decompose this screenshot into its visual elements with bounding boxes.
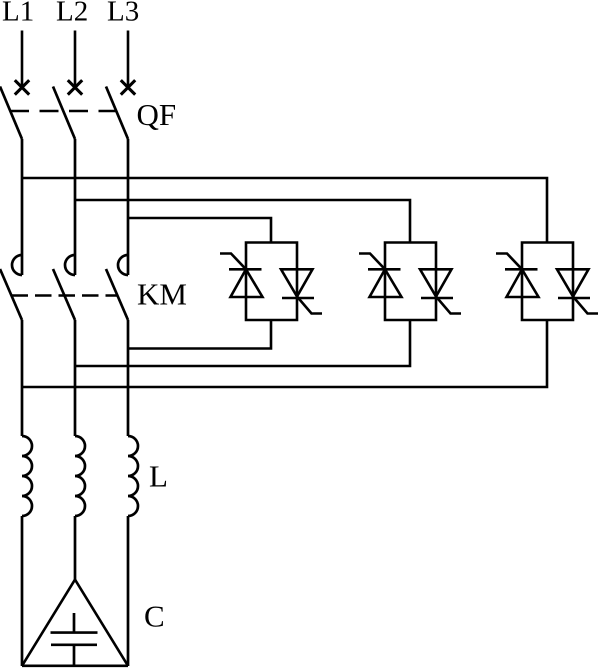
capacitor bank C capacitor top lead	[73, 613, 76, 632]
wire phase A vertical KM to inductor	[21, 320, 24, 436]
breaker QF linkage dashed line	[10, 110, 117, 113]
thyristor module 1 right SCR gate	[297, 297, 322, 314]
breaker QF pole 3 contact cross	[121, 80, 135, 94]
breaker QF pole 1 blade	[0, 87, 22, 140]
thyristor module 2 right SCR triangle	[420, 269, 452, 296]
inductor L phase A coil	[22, 436, 32, 516]
thyristor module 3 right SCR triangle	[557, 269, 589, 296]
thyristor module 1 right SCR triangle	[281, 269, 313, 296]
svg-text:L3: L3	[107, 0, 139, 28]
svg-text:L: L	[149, 459, 168, 494]
svg-text:QF: QF	[137, 97, 177, 132]
thyristor module 1 left SCR triangle	[231, 269, 263, 297]
breaker QF pole 2 contact cross	[68, 80, 82, 94]
svg-text:KM: KM	[137, 277, 187, 312]
contactor KM pole 2 fixed contact arc	[65, 255, 75, 275]
wire tap phase B to thyristor module 2 top	[75, 200, 410, 243]
contactor KM pole 2 blade	[53, 269, 75, 320]
svg-text:L2: L2	[56, 0, 88, 28]
breaker QF pole 1 contact cross	[15, 80, 29, 94]
thyristor module 2 right SCR cathode bar	[421, 297, 453, 300]
breaker QF pole 2 blade	[53, 87, 75, 140]
wire tap phase C to thyristor module 1 top	[128, 218, 271, 243]
thyristor module 2 left SCR triangle	[370, 269, 402, 297]
thyristor module 3 left SCR gate	[496, 254, 522, 270]
wire phase B inductor to capacitor bank apex	[74, 516, 77, 580]
wire L1 lead	[21, 31, 24, 88]
capacitor bank C capacitor bottom plate	[51, 643, 97, 646]
wire thyristor module 2 bottom return to phase B	[75, 320, 410, 366]
contactor KM linkage dashed line	[12, 294, 118, 297]
thyristor module 3 enclosure	[522, 243, 573, 321]
contactor KM pole 1 fixed contact arc	[12, 255, 22, 275]
thyristor module 3 left SCR cathode bar	[505, 268, 538, 271]
wire L3 lead	[127, 31, 130, 88]
thyristor module 2 enclosure	[385, 243, 436, 321]
contactor KM pole 3 fixed contact arc	[118, 255, 128, 275]
thyristor module 1 right SCR cathode bar	[282, 297, 314, 300]
thyristor module 2 left SCR cathode bar	[368, 268, 401, 271]
wire phase C inductor to capacitor bank	[127, 516, 130, 666]
thyristor module 3 right SCR cathode bar	[558, 297, 590, 300]
thyristor module 2 left SCR gate	[359, 254, 385, 270]
contactor KM pole 1 blade	[0, 269, 22, 320]
breaker QF pole 3 blade	[106, 87, 128, 140]
thyristor module 1 enclosure	[246, 243, 297, 321]
thyristor module 2 right SCR gate	[436, 297, 461, 314]
capacitor bank C capacitor top plate	[51, 631, 98, 634]
svg-text:C: C	[144, 599, 165, 634]
inductor L phase C coil	[128, 436, 138, 516]
wire phase C vertical QF to KM	[127, 139, 130, 275]
thyristor module 3 left SCR triangle	[507, 269, 539, 297]
wire phase B vertical QF to KM	[74, 139, 77, 275]
capacitor bank C capacitor bottom lead	[73, 645, 76, 666]
wire phase A vertical QF to KM	[21, 139, 24, 275]
capacitor bank C delta triangle	[22, 580, 128, 666]
svg-text:L1: L1	[2, 0, 34, 28]
wire phase A inductor to capacitor bank	[21, 516, 24, 666]
wire phase B vertical KM to inductor	[74, 320, 77, 436]
wire thyristor module 1 bottom return to phase C	[128, 320, 271, 349]
thyristor module 1 left SCR cathode bar	[229, 268, 262, 271]
thyristor module 1 left SCR gate	[220, 254, 246, 270]
wire tap phase A to thyristor module 3 top	[22, 178, 547, 243]
wire L2 lead	[74, 31, 77, 88]
contactor KM pole 3 blade	[106, 269, 128, 320]
thyristor module 3 right SCR gate	[573, 297, 598, 314]
wire thyristor module 3 bottom return to phase A	[22, 320, 547, 387]
wire phase C vertical KM to inductor	[127, 320, 130, 436]
inductor L phase B coil	[75, 436, 85, 516]
